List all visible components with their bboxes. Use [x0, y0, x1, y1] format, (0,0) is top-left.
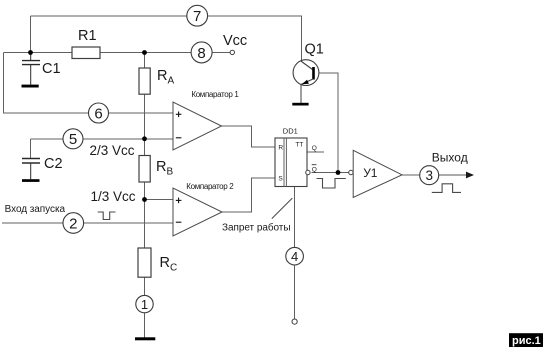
wire C2 branch [30, 139, 32, 159]
svg-text:5: 5 [69, 131, 77, 148]
pin circle 7 [187, 5, 208, 26]
svg-text:Компаратор 2: Компаратор 2 [186, 182, 234, 191]
pin circle 6 [89, 103, 109, 123]
wire divider chain RA [144, 53, 146, 69]
leader line inhibit [272, 198, 293, 219]
svg-text:Q: Q [312, 166, 317, 173]
svg-text:3: 3 [425, 168, 433, 183]
svg-text:Вход запуска: Вход запуска [5, 204, 66, 215]
svg-text:2/3 Vcc: 2/3 Vcc [90, 143, 135, 158]
svg-text:Vcc: Vcc [223, 33, 247, 49]
Qbar pulse symbol [317, 179, 346, 189]
wire U1 output [402, 174, 420, 176]
svg-text:2: 2 [69, 215, 77, 232]
output pulse symbol [432, 184, 461, 193]
svg-text:C2: C2 [44, 156, 63, 172]
transistor Q1 [293, 60, 319, 86]
node junction 1/3Vcc [142, 197, 147, 202]
wire output arrow [439, 174, 468, 176]
capacitor C2 [22, 159, 40, 180]
wire top rail pin7 [31, 16, 302, 62]
svg-text:Q1: Q1 [305, 42, 324, 58]
node junction 2/3Vcc [142, 136, 147, 141]
svg-text:У1: У1 [363, 166, 378, 180]
svg-text:RB: RB [156, 159, 173, 178]
pin circle 4 [286, 247, 304, 265]
svg-text:RA: RA [157, 68, 174, 87]
svg-text:4: 4 [291, 249, 298, 264]
ground for C1 [22, 85, 39, 88]
wire DD1 Q stub [307, 151, 324, 153]
svg-text:Выход: Выход [432, 151, 468, 165]
wire comp1 output [222, 126, 276, 147]
pin circle 3 [420, 166, 439, 185]
svg-text:1: 1 [141, 297, 148, 312]
pin circle 5 [63, 129, 83, 149]
svg-text:7: 7 [193, 8, 201, 25]
svg-text:S: S [278, 176, 283, 183]
wire trigger input [2, 222, 173, 224]
svg-text:TT: TT [295, 142, 303, 149]
wire 2/3Vcc control [31, 138, 173, 140]
terminal Vcc [230, 50, 234, 54]
wire top-left drop [30, 16, 32, 53]
DD1 inversion bubble [306, 170, 310, 174]
svg-text:8: 8 [197, 45, 205, 62]
resistor RC [138, 248, 151, 277]
ground for Q1 [292, 103, 308, 106]
svg-text:DD1: DD1 [283, 126, 298, 135]
wire left bypass [4, 53, 174, 114]
svg-text:RC: RC [160, 255, 178, 274]
figure label box [509, 333, 543, 347]
resistor RB [139, 156, 150, 183]
svg-text:Компаратор 1: Компаратор 1 [191, 90, 239, 99]
resistor RA [139, 68, 150, 94]
wire Q1 emitter to ground [300, 85, 302, 104]
comparator 1 op-amp [173, 102, 222, 150]
buffer U1 [349, 150, 402, 197]
pin circle 1 [136, 295, 153, 312]
node junction RA top [142, 50, 147, 55]
svg-text:Запрет работы: Запрет работы [222, 221, 290, 233]
wire DD1 reset to pin4 [294, 187, 296, 248]
trigger pulse symbol [98, 212, 116, 220]
flip-flop DD1 [275, 138, 310, 187]
wire Q1 base drop [315, 73, 339, 173]
terminal pin4 bottom [292, 319, 297, 324]
wire pin4 to terminal [294, 265, 296, 319]
svg-text:R1: R1 [78, 28, 97, 44]
node junction at C1 top [28, 50, 33, 55]
wire RC to pin1 [144, 277, 146, 295]
svg-text:R: R [278, 144, 283, 151]
node junction Qbar [336, 170, 341, 175]
pin circle 8 [191, 42, 212, 63]
pin circle 2 [63, 213, 84, 234]
wire pin1 to ground [144, 313, 146, 338]
ground for C2 [22, 179, 40, 182]
wire comp2 output [222, 178, 275, 212]
svg-text:1/3 Vcc: 1/3 Vcc [91, 189, 136, 204]
comparator 2 op-amp [173, 188, 222, 236]
ground for pin1 [135, 337, 155, 340]
svg-text:C1: C1 [42, 61, 61, 77]
wire Vcc rail [4, 52, 231, 54]
svg-text:рис.1: рис.1 [512, 335, 541, 347]
capacitor C1 [22, 53, 40, 85]
resistor R1 [72, 47, 100, 59]
wire RA-RB [144, 94, 146, 155]
svg-text:6: 6 [94, 105, 102, 122]
svg-text:Q: Q [312, 145, 317, 152]
wire DD1 Qbar to U1 [311, 172, 349, 174]
wire comp2 plus input [145, 199, 174, 201]
wire RB-node [144, 182, 146, 248]
